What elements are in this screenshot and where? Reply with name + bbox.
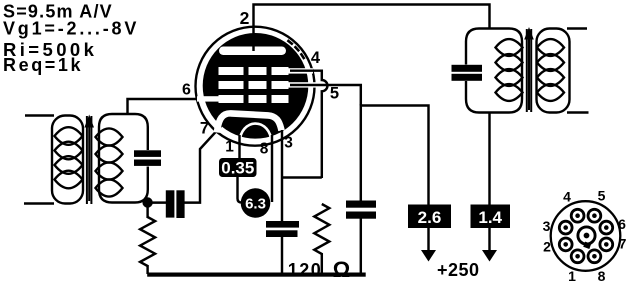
- tube V1 grid row3 lead-out strip (left): [197, 96, 220, 101]
- wire C3 to ground bus: [281, 237, 283, 274]
- wire screen feed to 2.6: [361, 106, 429, 206]
- T1 primary loop 2: [55, 142, 83, 160]
- value label 2.6 (screen current): [408, 205, 451, 229]
- wire C2 to pin 7: [185, 125, 223, 203]
- tube V1 inner electrode disc: [203, 33, 309, 139]
- T1 primary loop 3: [55, 156, 83, 174]
- transformer T1 primary winding: [52, 116, 83, 204]
- wire T1 primary bottom lead: [24, 202, 54, 204]
- wire pin 8 (heater): [271, 135, 273, 202]
- capacitor C3 (cathode bypass): [266, 221, 299, 228]
- wire pin 3 (cathode): [281, 130, 283, 222]
- T2 secondary loop 3: [537, 69, 564, 86]
- T1 secondary loop 4: [96, 179, 123, 196]
- transformer T2 primary winding: [466, 29, 522, 113]
- svg-text:5: 5: [330, 85, 339, 103]
- wire pin 5 (screen grid): [290, 85, 361, 106]
- T2 primary loop 3: [496, 69, 523, 86]
- svg-text:+250: +250: [437, 260, 480, 280]
- tube V1 heater arc: [240, 124, 271, 141]
- svg-text:Req=1k: Req=1k: [3, 55, 83, 75]
- svg-text:4: 4: [311, 49, 321, 67]
- svg-text:7: 7: [619, 236, 627, 252]
- socket pin 7: [600, 238, 613, 251]
- ground bus: [147, 273, 366, 277]
- T2 primary loop 2: [496, 54, 523, 71]
- wire node A to R1: [146, 203, 148, 219]
- svg-text:1: 1: [225, 139, 234, 156]
- arrow 2.6 to +250: [427, 228, 429, 251]
- capacitor C2 (grid series): [166, 190, 175, 217]
- svg-text:1: 1: [568, 268, 576, 283]
- svg-text:Ω: Ω: [333, 257, 351, 282]
- svg-text:4: 4: [563, 189, 571, 205]
- transformer T1 secondary winding: [99, 114, 148, 203]
- wire pin 1 (heater): [238, 135, 240, 159]
- wire R2 to ground bus: [321, 253, 323, 274]
- wire C4 to ground bus: [360, 219, 362, 275]
- T1 secondary loop 3: [96, 162, 123, 179]
- wire node A to C2: [148, 201, 166, 203]
- svg-text:1.4: 1.4: [478, 208, 502, 227]
- tube V1 grid row 1: [219, 67, 244, 75]
- svg-text:5: 5: [598, 188, 606, 204]
- T1 primary loop 1: [55, 127, 83, 145]
- svg-text:2: 2: [240, 8, 250, 28]
- wire output transformer primary to 1.4: [488, 112, 490, 205]
- tube V1 anode bar: [219, 47, 286, 56]
- svg-text:6.3: 6.3: [245, 196, 266, 213]
- arrow 1.4 to +250: [488, 228, 490, 251]
- value label 0.35 (heater current): [219, 158, 257, 177]
- tube V1 grid row 2: [219, 81, 244, 89]
- tube V1 grid row 3: [219, 95, 244, 103]
- svg-text:8: 8: [260, 141, 269, 158]
- T2 secondary loop 2: [537, 54, 564, 71]
- svg-text:0.35: 0.35: [221, 159, 254, 178]
- transformer T2 secondary winding: [537, 29, 570, 113]
- wire T1 primary top lead: [25, 114, 54, 116]
- svg-text:Vg1=-2...-8V: Vg1=-2...-8V: [3, 19, 139, 39]
- resistor R2 120 ohm (cathode bias): [314, 204, 329, 254]
- arrow T2 core (up): [528, 39, 530, 110]
- wire 0.35 box to 6.3 circle: [238, 177, 246, 203]
- tube V1 grid row1 lead-out strip: [286, 68, 313, 73]
- T1 secondary loop 2: [96, 145, 123, 162]
- capacitor C1 (across T1 secondary): [134, 150, 161, 157]
- transformer T1 core: [86, 116, 88, 204]
- wire T1 secondary top to pin 6: [128, 99, 214, 115]
- T1 primary loop 4: [55, 171, 83, 189]
- tube V1 grid row2 lead-out strip: [286, 82, 316, 87]
- svg-text:3: 3: [543, 218, 551, 234]
- svg-text:6: 6: [182, 82, 191, 99]
- transformer T2 core: [526, 29, 528, 112]
- wire pin 2 (anode) to output transformer: [254, 5, 490, 52]
- node A (grid circuit junction): [142, 197, 152, 207]
- wire T2 secondary top lead: [567, 27, 587, 29]
- value label 6.3 (heater voltage): [241, 188, 271, 218]
- wire pin 4 with crossover hook: [290, 71, 327, 178]
- socket pin 6: [600, 221, 613, 234]
- T1 secondary loop 1: [96, 128, 123, 145]
- socket pin 4: [571, 209, 584, 222]
- wire pin3 branch to R2: [282, 176, 322, 178]
- wire T2 secondary bottom lead: [567, 111, 589, 113]
- socket pin 2: [559, 238, 572, 251]
- value label 1.4 (anode current): [471, 205, 511, 229]
- resistor R1 (grid leak): [140, 217, 155, 266]
- svg-text:3: 3: [284, 135, 293, 152]
- svg-text:6: 6: [618, 216, 626, 232]
- capacitor C5 (across T2 primary): [452, 65, 483, 72]
- svg-text:8: 8: [598, 268, 606, 283]
- capacitor C4 (screen decoupling): [346, 201, 376, 208]
- svg-text:2: 2: [543, 239, 551, 255]
- svg-text:7: 7: [200, 120, 209, 138]
- socket pin 1: [571, 250, 584, 263]
- T2 primary loop 4: [496, 84, 523, 101]
- tube V1 cathode dome: [217, 113, 282, 132]
- tube V1 envelope: [196, 27, 315, 146]
- socket pin 8: [588, 250, 601, 263]
- wire R1 to ground bus: [146, 265, 148, 274]
- svg-text:120: 120: [288, 260, 323, 280]
- socket pin 3: [559, 221, 572, 234]
- T2 primary loop 1: [496, 39, 523, 56]
- arrow T1 core (up): [88, 127, 90, 201]
- tube V1 rim hatch dashes: [287, 40, 304, 59]
- tube socket outline: [551, 201, 621, 271]
- svg-text:2.6: 2.6: [418, 208, 442, 227]
- T2 secondary loop 1: [537, 39, 564, 56]
- T2 secondary loop 4: [537, 84, 564, 101]
- wire pin5 node down to C4: [360, 104, 362, 201]
- socket pin 5: [588, 209, 601, 222]
- socket center spigot: [578, 227, 595, 244]
